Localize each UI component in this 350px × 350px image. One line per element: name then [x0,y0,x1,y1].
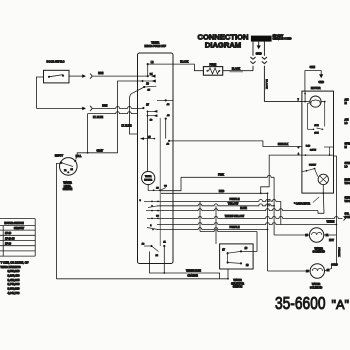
wire fuse to plug BLACK [223,67,253,72]
wire light blue row [88,112,138,120]
wire PINK [160,174,274,191]
svg-text:PURPLE: PURPLE [229,198,239,201]
svg-text:LO: LO [345,123,348,125]
timer contact 28 [148,188,161,192]
motor start winding [318,174,328,213]
motor box [302,86,334,193]
svg-text:6PM: 6PM [314,133,319,135]
svg-text:MOTOR: MOTOR [311,86,321,90]
svg-text:BLACK: BLACK [232,67,241,70]
wire water selector feed [200,230,257,252]
right edge label 6 [345,198,350,204]
timer internal vertical [159,118,161,246]
part number 35-6600 A [275,293,349,313]
svg-text:DOOR SW N.O: DOOR SW N.O [46,60,64,64]
svg-text:SPIN: SPIN [345,163,350,165]
svg-text:MOTOR: MOTOR [144,179,152,181]
svg-text:2 6PM: 2 6PM [310,149,316,151]
svg-text:17-19: 17-19 [5,232,12,235]
svg-text:KNOB-PUSH OFF: KNOB-PUSH OFF [145,44,167,48]
connector chevrons left [250,42,255,71]
svg-text:AGI: AGI [345,99,349,102]
timer terminal 43 [165,115,171,138]
motor internal labels [306,146,316,152]
wire WHITE-YELLOW [157,215,346,221]
right edge label 5 [345,179,350,186]
wire water selector bottom [227,269,229,280]
timer terminal 44 [157,99,173,106]
timer contact row 206 [148,205,158,208]
svg-text:4,048,783: 4,048,783 [8,291,20,295]
svg-text:GRD: GRD [319,81,325,84]
selector switch table [0,219,35,257]
svg-text:SWITCH: SWITCH [63,188,73,191]
svg-text:LT. BLUE: LT. BLUE [122,125,132,128]
svg-text:PINK: PINK [218,174,224,177]
wire pink riser to hot solenoid [274,177,305,235]
patent text block [1,260,29,294]
timer terminal 27 [142,104,149,110]
svg-text:SOLENOID: SOLENOID [313,251,326,254]
wire RED [161,190,268,193]
wire to motor BRN-BLK [169,141,302,149]
svg-text:LT. BLUE: LT. BLUE [93,116,103,119]
label hot water solenoid [313,247,326,253]
motor centrifugal contacts [307,125,323,134]
right edge label 4 [345,163,350,169]
wire WHITE [157,221,337,226]
timer contact 38 [160,185,168,190]
svg-text:BRN: BRN [102,104,107,107]
svg-text:HOT: HOT [329,240,334,242]
svg-text:* CAPACITOR: * CAPACITOR [294,202,310,205]
svg-text:TIMER: TIMER [151,40,159,44]
timer box [138,40,174,263]
svg-text:CIRCUIT: CIRCUIT [14,227,25,230]
wire red riser to cold solenoid [267,192,306,271]
svg-text:EMPTY: EMPTY [55,155,64,158]
timer contact 8 [140,200,159,203]
svg-text:STRT: STRT [345,198,350,200]
timer terminal 42 [167,140,171,146]
service cord plug [251,34,292,41]
water selector switch box [220,244,254,269]
ground arrow GRD [256,42,262,56]
svg-text:AGI: AGI [345,119,349,122]
svg-text:GRAY: GRAY [96,150,103,153]
svg-text:3,580,018: 3,580,018 [8,269,20,273]
svg-text:GRN: GRN [310,66,316,69]
timer terminal L2 [147,61,155,76]
right edge label 1 [345,99,349,106]
wire lt blue riser [87,114,89,154]
svg-text:PURPLE: PURPLE [229,226,239,229]
svg-text:COLD: COLD [331,265,338,267]
svg-text:TIMER: TIMER [145,176,152,178]
right edge label 7 [345,214,350,220]
wire ORANGE [56,275,228,279]
connector chevrons right [262,42,267,64]
right edge label 2 [345,119,349,126]
svg-text:LO: LO [345,167,348,169]
svg-text:BRN: BRN [98,72,103,75]
svg-text:WDG: WDG [345,183,350,185]
cold water solenoid [306,264,339,278]
wire WHITE-BLUE [150,252,220,279]
svg-text:WHITE-YELLOW: WHITE-YELLOW [225,215,245,218]
timer motor [142,171,155,190]
wire BLACK vertical to motor [264,66,302,102]
timer terminal 15 [140,137,155,140]
title CONNECTION DIAGRAM [197,33,248,50]
svg-text:BRN-BLK: BRN-BLK [278,143,289,146]
svg-text:17-18-19: 17-18-19 [5,237,15,240]
wire green ground [305,66,324,91]
svg-text:HI: HI [345,103,348,105]
svg-text:"A": "A" [332,297,350,312]
svg-text:BLUE: BLUE [240,207,247,210]
wire gray from water level switch [76,150,118,160]
svg-text:17-18: 17-18 [5,243,12,246]
door switch DOOR SW N.O [44,60,70,83]
svg-text:SWITCH: SWITCH [233,286,243,289]
svg-text:3,295,480: 3,295,480 [8,273,20,277]
wire PURPLE [157,198,281,202]
wire timer L2 to fuse [148,60,204,70]
timer contact row 211 [146,210,159,212]
svg-text:GRD: GRD [256,52,262,56]
wire orange loop from water level switch [56,164,61,279]
fuse F1 [203,64,222,76]
svg-text:WING PATENTS: WING PATENTS [1,265,21,269]
motor internal bus [302,147,334,156]
wire yellow riser A [199,201,201,231]
right edge label 3 [345,144,350,150]
timer terminal 11 [163,242,166,247]
svg-text:WHITE: WHITE [327,221,335,224]
water selector contacts [222,248,249,267]
wire YELLOW [157,202,275,206]
wire motor right exit [334,156,337,225]
timer terminal 12 [152,246,159,257]
wire motor zigzag [260,153,302,194]
svg-text:Y ONE, OR MORE, OF: Y ONE, OR MORE, OF [1,260,29,264]
water level switch [55,155,82,176]
label cold water solenoid [310,283,323,289]
svg-text:3,899,320: 3,899,320 [8,287,20,291]
svg-text:RED: RED [219,190,224,193]
svg-text:SOL: SOL [345,214,350,216]
svg-text:3,412,095: 3,412,095 [8,278,20,282]
svg-text:SOLENOID: SOLENOID [310,286,323,289]
timer terminal 24 [147,73,156,78]
svg-text:DIAGRAM: DIAGRAM [205,41,241,50]
label water level switch [63,181,73,191]
svg-text:START: START [309,163,317,166]
motor winding leads [307,102,324,130]
wire BLUE [157,207,324,213]
wire lt blue branch [122,94,138,134]
wire door switch loop left [37,77,44,108]
timer contacts below 27 [147,110,158,172]
wire purple riser to white [280,201,282,224]
svg-text:ECTOR SWITCH: ECTOR SWITCH [4,222,23,225]
svg-text:FUSE: FUSE [209,64,216,67]
timer terminal 25 [131,86,156,94]
timer terminal 10 [142,244,153,247]
svg-text:BLACK: BLACK [180,60,189,63]
svg-text:MAIN: MAIN [345,179,350,182]
svg-text:ORANGE: ORANGE [187,275,198,278]
wire gray riser to timer 26 [118,81,143,153]
svg-text:3,746,080: 3,746,080 [8,282,20,286]
svg-text:PUR-BLK: PUR-BLK [337,247,339,257]
wire from timer terminal 11 down [163,246,165,274]
motor start contact [302,163,318,176]
svg-text:HI: HI [345,147,348,149]
wire brown 2 to timer 27 [37,104,143,111]
wire brown 1 door switch to timer 24 [69,72,147,79]
wire PURPLE lower [157,226,268,230]
wire solenoid common [332,225,340,265]
svg-text:YELLOW: YELLOW [228,202,239,205]
timer contact 30 [147,215,160,219]
svg-text:WDG: WDG [345,201,350,203]
svg-text:SPIN: SPIN [345,144,350,146]
label water selector switch [231,279,244,289]
motor main winding [302,91,326,107]
svg-text:SERVICE CORD: SERVICE CORD [273,38,292,41]
hot water solenoid [305,228,334,242]
svg-text:35-6600: 35-6600 [275,293,326,313]
svg-text:B L A C K: B L A C K [265,79,268,89]
svg-text:WHITE-BLUE: WHITE-BLUE [186,270,201,273]
timer contact 1 [147,225,158,230]
label capacitor [294,197,319,206]
wire yellow riser B [215,206,217,244]
svg-text:6PM: 6PM [314,125,319,127]
svg-text:COM: COM [345,217,350,219]
timer terminal 26 [142,79,156,85]
